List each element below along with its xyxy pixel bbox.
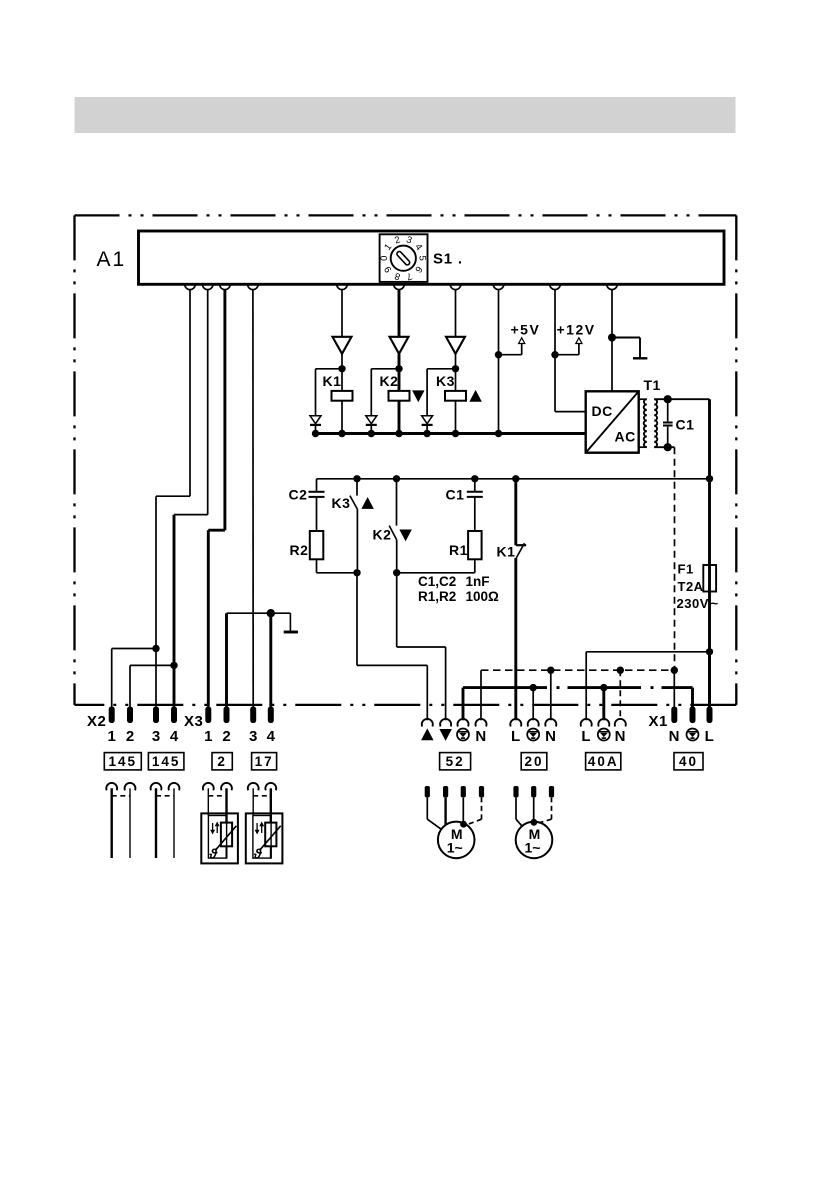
svg-text:52: 52 — [446, 754, 465, 769]
wire triangle to node K3 — [455, 354, 457, 369]
connector pin X3.2 — [224, 707, 230, 724]
rotary switch S1 position digits 0-9 — [379, 234, 427, 282]
node +12V tap — [551, 351, 558, 358]
A1 terminal bump x=455.5 — [450, 284, 461, 289]
wire N dashed from transformer — [674, 447, 676, 670]
external wire pair 2 (X2.4) — [173, 788, 175, 858]
relay contact K2 — [396, 479, 398, 526]
sensor lead thick — [225, 788, 227, 822]
motor 2 wire pin2 — [533, 797, 535, 821]
rotary switch S1 body — [380, 234, 428, 282]
wire terminal 52-N up to dashed N line — [480, 670, 482, 720]
svg-text:40A: 40A — [588, 754, 619, 769]
svg-text:5: 5 — [416, 256, 427, 261]
sensor lead thick — [270, 788, 272, 822]
+12V supply arrow — [555, 354, 579, 356]
A1 terminal bump x=342 — [337, 284, 348, 289]
code box 20 — [521, 753, 547, 770]
svg-text:K1: K1 — [323, 373, 342, 389]
wire 20-N down — [550, 670, 552, 720]
code box 40A — [586, 753, 621, 770]
connector pin X1.3 — [707, 707, 713, 724]
NTC diagonal — [260, 826, 281, 851]
mark triangle up terminal 52 — [422, 730, 433, 740]
svg-text:2: 2 — [217, 754, 227, 769]
svg-text:8: 8 — [393, 270, 401, 282]
arrows up-down icon — [256, 823, 258, 833]
svg-text:R1,R2: R1,R2 — [418, 589, 456, 604]
node coil K3 on bus — [452, 430, 459, 437]
connector pin X2.3 — [153, 707, 159, 724]
svg-text:L: L — [705, 728, 715, 745]
svg-text:K2: K2 — [380, 373, 399, 389]
wire X3.2 shield (heavy) — [225, 613, 228, 706]
capacitor C2 — [316, 479, 318, 491]
connector pin X2.2 — [127, 707, 133, 724]
external socket — [125, 783, 136, 790]
NTC diagonal — [215, 826, 236, 851]
motor pins group 52 — [425, 786, 430, 797]
node K2 contact on bus — [393, 475, 400, 482]
code box 40 — [674, 753, 703, 770]
driver amplifier triangle for K3 — [446, 337, 465, 354]
svg-text:L: L — [511, 728, 521, 745]
dashed pair tie — [112, 795, 130, 797]
wire K3 contact to terminal 52-up — [356, 573, 358, 666]
node K3 contact bottom — [353, 569, 360, 576]
svg-text:ϑ: ϑ — [253, 847, 263, 862]
NTC resistor body — [265, 823, 276, 847]
capacitor C1 snubber — [474, 479, 476, 491]
svg-text:T2A: T2A — [678, 579, 704, 594]
svg-text:C1: C1 — [446, 486, 465, 502]
external socket — [151, 783, 162, 790]
snubber bus — [317, 478, 710, 480]
node C1 snubber on bus — [471, 475, 478, 482]
svg-text:X2: X2 — [87, 713, 106, 730]
connector pin X3.4 — [268, 707, 274, 724]
svg-text:1: 1 — [204, 728, 212, 745]
controller board A1 — [139, 231, 725, 284]
wire A1 to driver K1 — [341, 290, 343, 337]
wire 20-pump down — [532, 688, 534, 721]
svg-text:T1: T1 — [644, 377, 661, 393]
code box 17 — [252, 753, 277, 770]
svg-text:X3: X3 — [184, 713, 203, 730]
ground symbol at shield — [289, 613, 291, 631]
svg-text:4: 4 — [267, 728, 276, 745]
wire branch to X2.2 — [130, 664, 174, 666]
node junction X2.1/X2.3 — [152, 645, 159, 652]
svg-text:ϑ: ϑ — [208, 847, 218, 862]
wire A1 ground down — [611, 290, 613, 392]
svg-text:DC: DC — [592, 403, 613, 419]
node L on snubber bus — [706, 475, 713, 482]
relay common bus (heavy) — [316, 432, 586, 435]
mark triangle up for K3 — [470, 391, 481, 401]
wire X1-pump down (heavy) — [691, 688, 694, 708]
wire X1-N down — [673, 670, 675, 707]
motor 2 wire pin3 (dashed) — [551, 797, 553, 819]
wire A1 to driver K3 — [455, 290, 457, 337]
svg-text:7: 7 — [405, 270, 413, 282]
ground symbol — [612, 337, 640, 339]
svg-text:145: 145 — [152, 754, 181, 769]
mark triangle down terminal 52 — [440, 730, 451, 740]
node +5V on bus — [495, 430, 502, 437]
node L to 40A-L branch — [706, 648, 713, 655]
svg-text:2: 2 — [126, 728, 134, 745]
wire branch to diode K3 — [427, 368, 455, 370]
wire A1.2 down — [207, 290, 209, 515]
svg-text:N: N — [669, 728, 680, 745]
code box 145 right — [148, 753, 184, 770]
node K1 top junction — [338, 365, 345, 372]
dashed pair tie — [208, 795, 226, 797]
svg-text:AC: AC — [615, 429, 636, 445]
svg-text:20: 20 — [524, 754, 543, 769]
external socket — [248, 783, 259, 790]
sensor inner box — [208, 816, 226, 859]
node N line at 20-N — [547, 667, 554, 674]
capacitor C1 (mains filter) — [667, 399, 669, 421]
A1 terminal bump x=498.5 — [493, 284, 504, 289]
terminal socket 52 group — [458, 719, 469, 727]
svg-text:230V: 230V — [677, 596, 709, 611]
wire branch to diode K2 — [371, 368, 399, 370]
motor 1 node — [460, 821, 467, 828]
svg-text:2: 2 — [393, 234, 401, 246]
A1 terminal bump x=252.9 — [248, 284, 259, 289]
node diode K2 on bus — [368, 430, 375, 437]
connector pin X1.2 — [690, 707, 696, 724]
node K1 contact on bus — [512, 475, 519, 482]
motor 1 wire pin2 (heavy) — [444, 797, 446, 825]
node junction X2.2/X2.4 — [170, 662, 177, 669]
wire diode to bus K2 — [370, 425, 372, 434]
NTC resistor body — [221, 823, 232, 847]
relay contact K1 (heavy) — [514, 479, 517, 545]
wire A1 +12V down — [554, 290, 556, 412]
wire +12V into DC/AC converter — [555, 411, 586, 413]
frame border top — [75, 214, 737, 216]
mark triangle up at K3 contact — [362, 498, 373, 508]
freewheel diode of K2 — [366, 416, 377, 424]
motor 1 wire pin1 — [426, 797, 428, 819]
resistor R2 — [310, 531, 324, 559]
A1 terminal bump x=555 — [550, 284, 561, 289]
wire L branch to 40A-L — [586, 651, 709, 653]
wire down to X2.4 (heavy) — [173, 515, 176, 707]
svg-text:+12V: +12V — [557, 322, 596, 338]
rotary switch S1 knob — [391, 246, 416, 271]
terminal socket 52 group — [440, 719, 451, 727]
node K3 contact on bus — [353, 475, 360, 482]
frame border left — [73, 215, 75, 705]
fuse F1 — [703, 565, 716, 592]
mark triangle down at K2 contact — [400, 530, 411, 540]
terminal socket 20 group — [510, 719, 521, 727]
node K3 top junction — [452, 365, 459, 372]
external socket — [106, 783, 117, 790]
node K2 top junction — [395, 365, 402, 372]
A1 terminal bump x=207.7 — [202, 284, 213, 289]
freewheel diode of K3 — [422, 416, 433, 424]
svg-text:K1: K1 — [497, 544, 516, 560]
svg-text:X1: X1 — [649, 713, 668, 730]
wire A1.3 jog left (heavy) — [208, 529, 225, 532]
terminal socket 20 group — [528, 719, 539, 727]
wire branch to diode K1 — [316, 368, 343, 370]
external socket — [265, 783, 276, 790]
wire A1.2 jog left — [174, 514, 208, 516]
pump symbol terminal 20 — [527, 729, 539, 741]
node secondary top / C1 — [664, 395, 672, 403]
svg-text:1nF: 1nF — [466, 574, 490, 589]
wire A1.1 down — [189, 290, 191, 497]
wire A1.4 down to X3.3 — [252, 290, 254, 707]
motor M2 1~ — [516, 822, 553, 859]
svg-text:N: N — [545, 728, 556, 745]
wire diode to bus K3 — [426, 425, 428, 434]
A1 terminal bump x=224.9 — [220, 284, 231, 289]
pump symbol of X1 — [687, 729, 699, 741]
node coil K1 on bus — [338, 430, 345, 437]
wire A1 to driver K2 — [398, 290, 401, 337]
svg-text:F1: F1 — [678, 562, 694, 577]
external socket — [169, 783, 180, 790]
svg-text:~: ~ — [711, 596, 719, 611]
terminal socket 40A group — [598, 719, 609, 727]
node K2 contact bottom — [393, 569, 400, 576]
resistor R1 — [468, 531, 482, 559]
terminal socket 20 group — [545, 719, 556, 727]
motor pins group 20 — [513, 786, 518, 797]
svg-text:40: 40 — [679, 754, 698, 769]
svg-text:R2: R2 — [290, 542, 309, 558]
svg-text:1~: 1~ — [525, 839, 541, 855]
connector pin X3.3 — [250, 707, 256, 724]
svg-text:C2: C2 — [289, 486, 308, 502]
node diode K1 on bus — [312, 430, 319, 437]
motor M1 1~ — [438, 822, 475, 859]
node N line at 40A-N — [617, 667, 624, 674]
node phantom line at 20-pump — [530, 684, 537, 691]
A1 terminal bump x=612 — [607, 284, 618, 289]
wire A1.3 down (heavy) — [223, 290, 226, 531]
code box 145 left — [104, 753, 141, 770]
svg-text:3: 3 — [152, 728, 160, 745]
sensor outer box — [246, 813, 283, 863]
wire triangle to node K2 — [398, 354, 401, 369]
external wire pair 2 (X2.3 heavy) — [155, 788, 157, 858]
svg-text:K2: K2 — [373, 527, 392, 543]
sensor outer box — [201, 813, 238, 863]
svg-text:L: L — [581, 728, 591, 745]
driver amplifier triangle for K1 — [333, 337, 352, 354]
frame border bottom — [75, 704, 737, 706]
transformer T1 secondary winding — [654, 399, 657, 447]
node +5V tap — [495, 351, 502, 358]
wire diode to bus K1 — [315, 425, 317, 434]
wire 40A-N down (dashed) — [619, 670, 621, 720]
wire 40A-pump down (heavy) — [602, 688, 605, 721]
connector pin X1.1 — [671, 707, 677, 724]
wire down to X3.1 (heavy) — [207, 530, 210, 706]
wire K2 bottom to R1 — [397, 572, 475, 574]
sensor lead thin — [252, 788, 254, 815]
node junction X3.4 on shield line — [267, 609, 275, 617]
sensor lead thin — [207, 788, 209, 815]
terminal socket 52 group — [422, 719, 433, 727]
rotary switch S1 knob slot — [396, 251, 411, 266]
relay coil K1 — [341, 369, 343, 391]
svg-text:145: 145 — [109, 754, 138, 769]
header bar — [75, 97, 736, 133]
pump symbol terminal 40A — [598, 729, 610, 741]
sensor inner box — [253, 816, 271, 859]
terminal socket 40A group — [615, 719, 626, 727]
motor 2 wire pin1 — [515, 797, 517, 819]
svg-text:N: N — [615, 728, 626, 745]
svg-text:4: 4 — [170, 728, 179, 745]
wire terminal 52-pump up to phantom line (heavy) — [462, 688, 465, 721]
svg-text:C1: C1 — [676, 416, 695, 432]
motor 1 wire pin4 (dashed) — [481, 797, 483, 819]
connector pin X2.4 — [171, 707, 177, 724]
dashed N line — [481, 669, 674, 671]
transformer T1 primary winding — [639, 398, 647, 400]
+5V supply arrow — [499, 354, 522, 356]
wire triangle to node K1 — [341, 354, 343, 369]
wire branch to X2.1 — [112, 648, 156, 650]
terminal socket 40A group — [581, 719, 592, 727]
relay coil K3 — [455, 369, 457, 391]
node coil K2 on bus — [395, 430, 402, 437]
svg-text:N: N — [475, 728, 486, 745]
dashed pair tie — [156, 795, 174, 797]
wire L from transformer (heavy) — [708, 399, 711, 565]
node phantom line at 40A-pump — [600, 684, 607, 691]
node N dashed junction — [671, 667, 678, 674]
connector pin X3.1 — [205, 707, 211, 724]
wire A1.1 jog left — [156, 495, 190, 497]
external wire pair 1 (X2.2) — [129, 788, 131, 858]
connector pin X2.1 — [109, 707, 115, 724]
wire K2 contact to terminal 52-down — [396, 573, 398, 647]
svg-text:+5V: +5V — [511, 322, 541, 338]
driver amplifier triangle for K2 — [390, 337, 409, 354]
motor 1 wire pin3 — [462, 797, 464, 823]
phantom pump feed line (heavy) — [463, 686, 547, 689]
NTC bottom lead — [226, 846, 228, 858]
relay coil K2 — [398, 369, 401, 391]
wire down to X2 junction — [155, 496, 157, 706]
motor 2 node — [531, 819, 538, 826]
mark triangle down for K2 — [413, 391, 424, 401]
external socket — [221, 783, 232, 790]
external wire pair 1 (X2.1 heavy) — [110, 788, 112, 858]
svg-text:C1,C2: C1,C2 — [418, 574, 456, 589]
svg-text:1~: 1~ — [447, 839, 463, 855]
frame border right — [735, 215, 737, 705]
node diode K3 on bus — [423, 430, 430, 437]
svg-text:17: 17 — [255, 754, 274, 769]
svg-text:100Ω: 100Ω — [466, 589, 500, 604]
svg-text:3: 3 — [405, 234, 413, 246]
svg-text:1: 1 — [108, 728, 116, 745]
dashed pair tie — [253, 795, 271, 797]
freewheel diode of K1 — [310, 416, 321, 424]
A1 terminal bump x=399 — [394, 284, 405, 289]
A1 terminal bump x=190 — [185, 284, 196, 289]
svg-text:A1: A1 — [97, 248, 127, 271]
code box 2 — [212, 753, 232, 770]
svg-text:2: 2 — [222, 728, 230, 745]
svg-text:R1: R1 — [449, 542, 468, 558]
svg-text:K3: K3 — [436, 373, 455, 389]
terminal socket 52 group — [475, 719, 486, 727]
svg-text:S1 .: S1 . — [433, 251, 463, 268]
wire X1-L down (heavy) — [708, 652, 711, 708]
svg-text:0: 0 — [379, 256, 390, 261]
node ground tap — [608, 334, 616, 342]
relay contact K3 — [356, 479, 358, 496]
arrows up-down icon — [212, 823, 214, 833]
svg-text:K3: K3 — [332, 495, 351, 511]
NTC bottom lead — [270, 846, 272, 858]
wire X3.4 up (heavy) — [269, 613, 272, 706]
DC/AC converter U1 — [586, 391, 639, 452]
external socket — [203, 783, 214, 790]
node secondary bottom / C1 — [664, 443, 672, 451]
pump symbol terminal 52 — [457, 729, 469, 741]
svg-text:3: 3 — [249, 728, 257, 745]
wire A1 +5V down — [498, 290, 500, 434]
code box 52 — [440, 753, 471, 770]
